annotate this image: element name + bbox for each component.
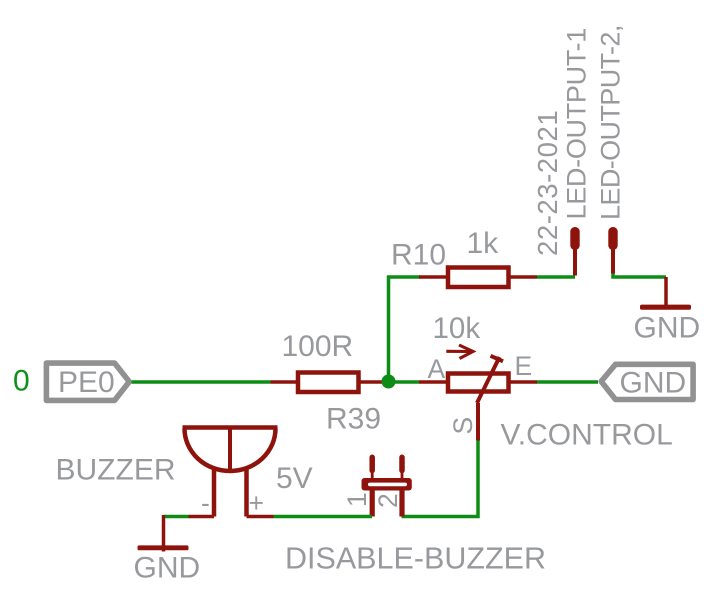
wire red pot right: [511, 380, 538, 384]
wire red down to GND left: [162, 515, 166, 552]
wire R39 to junction (red): [361, 380, 387, 384]
wire buzzer minus (green): [164, 515, 189, 519]
resistor R39: [282, 330, 382, 436]
wire red buzzer plus: [247, 515, 274, 519]
svg-text:GND: GND: [634, 312, 701, 345]
svg-text:+: +: [249, 488, 264, 518]
svg-text:BUZZER: BUZZER: [56, 454, 176, 487]
flag GND right: [601, 364, 693, 399]
svg-text:10k: 10k: [433, 312, 481, 345]
svg-text:1: 1: [342, 492, 372, 507]
svg-text:PE0: PE0: [58, 366, 115, 399]
svg-text:A: A: [428, 354, 446, 384]
svg-text:LED-OUTPUT-2,: LED-OUTPUT-2,: [596, 25, 626, 220]
svg-text:5V: 5V: [276, 462, 313, 495]
svg-text:100R: 100R: [282, 330, 354, 363]
wire to LED-OUTPUT-1 (green): [537, 275, 575, 279]
svg-text:R10: R10: [391, 239, 446, 272]
wire red buzzer minus: [189, 515, 215, 519]
ground symbol top right: [634, 305, 701, 345]
svg-text:R39: R39: [326, 403, 381, 436]
svg-text:DISABLE-BUZZER: DISABLE-BUZZER: [285, 542, 546, 576]
svg-text:S: S: [448, 417, 478, 435]
junction dot: [382, 375, 396, 389]
jumper DISABLE-BUZZER: [285, 457, 546, 575]
pin LED-OUTPUT-2: [608, 227, 617, 274]
wiper stub red: [476, 403, 480, 441]
svg-text:LED-OUTPUT-1: LED-OUTPUT-1: [562, 28, 592, 219]
wire red into R39: [271, 380, 298, 384]
flag PE0: [46, 363, 129, 400]
wire red into R10: [419, 275, 447, 279]
wire pot to GND flag (green): [537, 380, 598, 384]
wire buzzer plus to jumper (green): [274, 515, 373, 519]
svg-text:GND: GND: [620, 367, 687, 400]
buzzer: [56, 428, 313, 519]
svg-text:E: E: [515, 351, 533, 381]
svg-text:1k: 1k: [467, 227, 500, 260]
wire PE0 to R39 (green): [132, 380, 271, 384]
resistor R10: [391, 227, 509, 287]
ground symbol bottom left: [134, 545, 201, 584]
wire red down to GND symbol: [664, 277, 668, 307]
svg-text:V.CONTROL: V.CONTROL: [501, 419, 673, 452]
svg-text:22-23-2021: 22-23-2021: [532, 110, 563, 256]
wire R10 right (red): [511, 275, 538, 279]
svg-text:2: 2: [373, 493, 403, 508]
wire junction up to R10 branch (green): [389, 277, 421, 382]
wire red pot left: [419, 380, 446, 384]
potentiometer V.CONTROL: [428, 312, 673, 452]
wire junction to pot (green): [383, 380, 419, 384]
svg-text:-: -: [201, 488, 210, 518]
pin LED-OUTPUT-1: [570, 227, 579, 276]
svg-text:GND: GND: [134, 552, 201, 585]
wire LED-OUTPUT-2 to GND (green): [613, 274, 666, 278]
svg-text:0: 0: [13, 365, 30, 398]
wire wiper down to jumper (green): [402, 441, 479, 517]
